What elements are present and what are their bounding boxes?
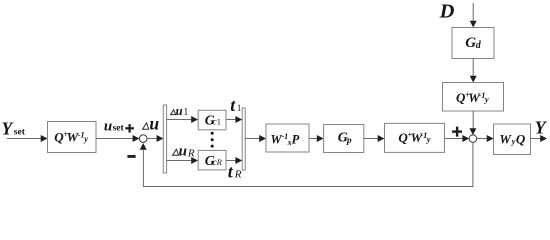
label plus at summer S1 <box>125 124 134 133</box>
summer S1 <box>139 135 147 143</box>
wire summer S1 to splitter bar <box>147 135 163 142</box>
wire splitter to block GcR <box>167 157 198 164</box>
svg-text:D: D <box>439 0 455 22</box>
svg-text:y: y <box>83 134 88 144</box>
svg-text:u: u <box>179 144 187 160</box>
svg-text:R: R <box>216 157 223 167</box>
label delta-u <box>143 113 160 133</box>
vertical dots between Gc1 and GcR <box>211 132 214 148</box>
wire combiner to block W-1xP <box>245 135 266 142</box>
svg-text:P: P <box>292 133 300 147</box>
wire D to block Gd <box>470 3 477 28</box>
wire Gc1 to combiner bar <box>226 116 242 123</box>
label delta-uR <box>173 144 195 160</box>
label Y output <box>535 118 548 138</box>
block WyQ <box>494 124 531 155</box>
wire Gd to block Q+W-1y disturbance <box>470 59 477 83</box>
label t_R <box>228 161 242 181</box>
block Q+W-1y (chain) <box>385 123 445 152</box>
svg-text:u: u <box>104 118 112 134</box>
svg-text:1: 1 <box>217 117 221 127</box>
block GcR <box>198 150 226 170</box>
combiner bar <box>242 108 245 170</box>
svg-text:y: y <box>484 94 489 104</box>
block Gp <box>324 125 364 153</box>
label plus at summer S2 <box>452 127 462 137</box>
svg-text:W: W <box>499 132 512 147</box>
svg-text:set: set <box>113 124 125 134</box>
block Gd <box>452 28 494 59</box>
svg-text:u: u <box>149 113 159 133</box>
svg-text:R: R <box>234 169 242 181</box>
label minus at summer S1 <box>127 155 135 158</box>
wire feedback from summer S2 to summer S1 <box>140 142 473 186</box>
svg-text:u: u <box>176 104 183 118</box>
svg-text:y: y <box>426 134 431 144</box>
label delta-u1 <box>171 104 189 118</box>
wire disturbance block to summer S2 <box>469 111 476 135</box>
wire GcR to combiner bar <box>226 157 242 164</box>
wire splitter to block Gc1 <box>167 116 198 123</box>
wire block to summer S1 <box>96 135 139 142</box>
label Y_set <box>2 119 26 139</box>
svg-text:R: R <box>187 148 195 160</box>
svg-text:1: 1 <box>183 107 188 118</box>
label t_1 <box>230 95 241 115</box>
summer S2 <box>469 135 477 143</box>
block W-1xP <box>266 124 309 152</box>
wire chain block to summer S2 <box>445 135 470 142</box>
splitter bar <box>163 105 166 173</box>
wire Gp to block Q+W-1y chain <box>364 135 385 142</box>
wire W-1xP to block Gp <box>309 135 324 142</box>
svg-text:1: 1 <box>237 103 242 113</box>
svg-text:G: G <box>465 35 476 51</box>
block Q+W-1y (input) <box>48 122 97 153</box>
svg-text:set: set <box>14 127 26 137</box>
wire summer S2 to block WyQ <box>477 135 494 142</box>
label u_set <box>104 118 125 134</box>
block Gc1 <box>198 110 226 130</box>
svg-text:p: p <box>346 136 352 146</box>
block Q+W-1y (disturbance) <box>443 83 504 112</box>
label D <box>439 0 455 22</box>
svg-text:Q: Q <box>516 132 526 147</box>
wire Yset to block Q+W-1y input <box>7 135 48 142</box>
wire WyQ to output Y <box>531 135 548 142</box>
